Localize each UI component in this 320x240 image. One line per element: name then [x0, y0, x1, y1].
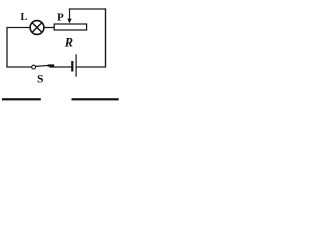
- svg-text:S: S: [37, 72, 43, 85]
- wire: bottom-left to switch: [6, 66, 31, 68]
- underline blank (right): [72, 98, 119, 100]
- wire: bottom-right (battery to right wire): [76, 66, 106, 68]
- switch S (pivot circle + lever): [32, 64, 54, 69]
- wire: lamp to rheostat box: [44, 27, 55, 29]
- svg-text:P: P: [57, 12, 64, 24]
- rheostat R box: [54, 24, 86, 30]
- wire: top-right horizontal: [69, 8, 106, 10]
- svg-text:R: R: [64, 36, 73, 50]
- wire: switch to battery: [50, 66, 72, 68]
- slider arrow P (wiper): [67, 9, 71, 24]
- svg-text:L: L: [21, 12, 28, 23]
- background: [0, 0, 120, 104]
- wire: right vertical: [105, 8, 107, 67]
- wire: left vertical: [6, 28, 8, 68]
- lamp L (circle with X): [30, 21, 44, 35]
- wire: top-left horizontal to lamp: [6, 27, 30, 29]
- battery (cell): long thin plate: [75, 54, 77, 76]
- underline blank (left): [2, 98, 41, 100]
- battery (cell): short thick plate: [71, 61, 73, 72]
